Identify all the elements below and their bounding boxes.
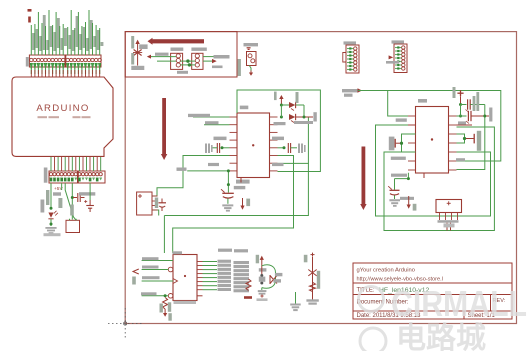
supply plus mark [457,92,463,94]
capacitor C3 [216,143,218,153]
bus arrow top [153,39,205,43]
LED D1 [48,213,53,218]
net label top-left wire [342,89,358,92]
sheet border frame [125,32,516,324]
ground hatch mid-bottom [290,304,301,306]
red bar below column [244,296,252,299]
zener side label right [168,302,171,312]
net label pin8 left [177,168,187,171]
IC3 pin3 clock mark [173,279,178,284]
label near supply arrow [246,199,250,207]
svg-text:http;//www.selyele-vbo-vbso-st: http;//www.selyele-vbo-vbso-store.l [357,277,443,283]
bus arrow left of IC2 [362,147,366,205]
watermark stamp circle lower [360,328,386,351]
IC2 U2 body [416,107,449,174]
resistor R1 body label vertical [58,198,62,208]
plus mark C2 [84,201,87,203]
power mark top-left [28,9,32,12]
wire top run to IC2 [358,91,501,162]
wire label into K1 [155,53,169,56]
wire IC1 pin5 to cap [222,147,230,149]
watermark stamp circle upper [359,283,528,351]
net label pin7 left [208,163,219,166]
IC3 left pin2 wire [142,269,169,271]
crystal lower pins [446,223,448,231]
crystal plus mark [447,202,451,204]
wire IC1 pin1 [193,116,230,118]
title block Sheet cell divider [463,311,465,319]
relay K1 box [171,53,183,69]
wire branch into IC2 pin1 [388,91,408,117]
switch pin wires [69,219,71,221]
title block outline [353,263,512,319]
Q1 body arc [262,265,276,288]
antenna E1 mast [137,41,139,66]
arrow head on top-left wire [358,88,363,93]
wire D3 right red [296,116,313,118]
A2 top label [304,255,308,262]
IC2 center mark [431,138,433,140]
wire U loop left of IC2 [402,134,416,152]
wire to diode D2 [281,104,289,106]
bus arrow left of IC1 [162,98,166,154]
CN1 plus mark [138,195,142,197]
wire IC1 cap branch down [227,171,229,193]
capacitor C6 near CN1 [161,199,163,203]
IC3 bottom pad label [174,301,197,304]
IC1 top label [240,106,249,110]
arduino body subtext right [73,116,81,118]
wire loop pin6 left to connector [152,156,230,197]
ground hatch right of C4 [298,144,300,154]
arduino top header J2 box [66,55,101,67]
wire diagonal to reset box [65,183,76,220]
arduino top pin wires with net labels [31,10,103,55]
Q1 emitter wire [261,288,263,290]
wire loop mid around IC1 [173,156,294,254]
net label right of sub box [238,59,241,76]
svg-text:电路城: 电路城 [396,322,486,351]
IC3 U3 body [173,255,197,301]
Q1 plus mark [260,295,263,297]
Q1 junction top [260,274,263,277]
net label below pin1 [46,190,49,205]
wire out of K2 row1 [203,56,215,58]
capacitor C1 series [73,197,77,199]
zener ZD1 down [163,298,168,310]
wide label below diode net left [274,122,286,125]
relay K2 contacts [195,54,199,58]
antenna star cross [134,50,142,56]
CN1 side label [155,198,158,209]
wire IC1 pin5 right to cap [278,147,285,149]
capacitor C11 polarized [390,189,400,191]
wire label out of K2 [214,55,230,59]
wire IC1 pin2 [204,124,230,126]
IC2 top label [418,99,427,103]
sub-circuit box outline [125,32,237,77]
wire D2 to down leg [296,104,304,106]
header P2 box [394,44,407,73]
relay K2 box [192,53,203,69]
wire long ground run [164,163,308,215]
antenna net label upper [131,36,134,49]
svg-text:CIRMALL: CIRMALL [391,283,527,324]
IC3 pin4 bubble [168,294,173,299]
junction diode net bottom [280,116,283,119]
junction on pin4 wire [164,294,167,297]
wire label below K2 out [212,66,223,69]
ground symbol below LED [45,227,56,229]
relay K1 sublabel [177,71,188,74]
switch S1 box [66,220,80,232]
jumper JP1 wire down [249,66,251,71]
IC1 pin stubs [230,117,278,171]
net label pin3 [142,276,160,279]
wire loop A around IC2 [376,125,491,216]
net label pin4 [141,292,157,295]
wire IC2 bottom-left pin [395,173,409,179]
wire LED to ground [50,219,52,226]
net label pin1 [188,114,210,117]
jumper JP1 cap mark [247,47,251,48]
wire pin8 left [187,170,229,172]
IC1 bottom label [236,180,250,184]
junction diode net top [280,104,283,107]
capacitor C10 [467,111,469,121]
IC3 bottom-right pin stub [197,295,203,297]
wire arrow out of K2 row2 [203,60,212,62]
wire C10 right red [471,115,489,117]
wire long ground run left leg [163,216,165,254]
capacitor C1 net label [79,192,95,195]
arrow glyph left pin2 [133,269,139,274]
pin2 right label [458,121,466,124]
Q1 gate glyph [270,275,277,284]
wire U loop right of IC2 [457,134,465,143]
capacitor C5 polarized [222,192,234,194]
header P2 arrow [389,55,394,59]
net label pin4 right [272,137,284,141]
header P1 side bracket [343,53,346,63]
junction C8 [463,137,466,140]
IC1 U1 body [237,113,270,178]
IC1 center mark [252,144,254,146]
ground below C5 [222,204,233,206]
arduino top header pin circles and stubs [30,58,102,77]
IC3 pin2 bubble [168,267,173,272]
gnd net label wide [400,197,414,200]
arduino module body outline [12,77,113,156]
jumper JP1 label [244,43,259,46]
wire into cap C9 [461,104,467,106]
capacitor C9 [467,99,469,109]
label near arrow [413,204,417,211]
IC2 pin stubs [408,116,457,170]
relay K1 contacts [176,54,180,58]
frame corner mark bottom-left [108,323,142,325]
net label pin2 [205,121,219,124]
C7 gray block [389,137,395,151]
net label pin7 right [272,163,284,166]
net label above diodes right [296,92,299,103]
tall label bar 2 [476,92,479,111]
title block REV cell divider [490,295,492,312]
tall label bar 1 [473,96,476,111]
wire loop diode-net IC1 pin7 [278,117,309,163]
net label pin2 left [396,118,407,121]
IC2 bottom label [391,174,407,177]
IC3 right pins and label columns [197,260,231,291]
wire pin1 to cluster [457,115,467,117]
pin2 right red line [457,124,473,126]
wire into K1 row2 [157,60,176,62]
labels above column [218,249,232,252]
stub end bar right [489,108,492,122]
svg-text:ARDUINO: ARDUINO [36,103,89,114]
power mark 2 top-left [28,17,31,23]
Q1 base label [259,277,266,282]
title block row line 2 [353,294,512,296]
A2 side label [317,271,320,289]
small label below arrow [132,277,136,285]
net label pin6 left [391,157,406,160]
gray bar left of J1 [26,57,29,67]
IC3 left pin3 wire [142,280,173,282]
wire down leg [303,105,305,117]
header P1 contacts [347,47,357,71]
crystal Y1 box [436,200,462,213]
CN1 pin stubs [152,196,158,210]
arduino bottom pins [49,157,102,182]
junction right [483,115,486,118]
A2 zigzag [310,282,316,291]
IC3 right label column 2 [234,261,250,292]
title block row line 3 [353,310,512,312]
red glyph in label column [246,279,251,291]
supply stem [460,96,462,104]
diode D2 [289,102,295,108]
A2 plus mark [311,254,315,256]
net label pin6 right [456,158,465,161]
wire corner down to pin8 row [457,105,485,170]
header P1 label [344,41,357,44]
IC1 bottom stub [240,178,242,183]
wire into K1 [151,56,177,58]
arduino bottom header J4 box [78,171,105,183]
crystal pad bar [438,220,459,223]
wire loop top around IC1 [237,90,320,172]
gray tall bar lower-left [41,200,45,213]
Q1 base pad [257,298,268,301]
Q1 junction bottom [260,282,263,285]
ground below C11 [389,199,400,201]
Q1 right labels [275,273,283,276]
wire C9 to corner [471,104,485,106]
junction below pin1 [50,207,53,210]
antenna label right [139,44,147,49]
junction cluster top [459,103,462,106]
net label on pin7 wire [70,205,74,216]
net label pin4 [214,137,227,141]
arduino body subtext left [38,116,48,118]
Q1 cap pads [258,290,267,292]
net label top right cluster [453,87,456,98]
header P2 contacts [395,46,405,70]
wire loop B around IC2 [384,127,494,231]
branch net label [234,186,246,189]
capacitor C7 [396,142,400,144]
connector CN1 box [137,192,152,215]
relay K1 label [171,48,184,51]
jumper ground arrow [250,71,252,73]
ground hatch left of C3 [205,144,207,154]
Q1 supply arrow up [261,260,263,267]
net label pin2 [142,266,159,269]
zener arrow to ground [164,309,166,313]
wire K1 to K2 row3 [181,64,196,66]
crystal lower label [444,223,455,227]
arduino bottom header J3 box [49,171,78,183]
IC3 center mark [184,275,186,277]
Q1 top label [256,255,259,263]
gray bar left of J3 [44,168,48,183]
IC3 left pin4 wire [142,295,169,297]
wire hatch feed [295,292,297,304]
C8 gray block [477,131,481,151]
zener lower label [168,313,171,321]
capacitor C2 to ground [89,183,91,200]
resistor R1 label [53,192,61,195]
stub end bar [313,112,316,121]
IC3 top label [173,251,183,254]
crystal pins [440,213,458,221]
Q1 collector stub [261,266,263,276]
A2 diode cross [308,270,316,276]
capacitor C8 [466,138,474,140]
antenna net label lower [131,53,134,65]
wire net below J3 pin1 [50,183,52,210]
jumper JP1 box [247,52,257,66]
supply arrow above diodes [280,99,282,106]
antenna base label [131,66,144,70]
junction C7 [400,142,403,145]
capacitor C4 [287,143,289,153]
wide label below diode net right [294,121,313,124]
supply arrow down right of C11 [408,196,410,205]
ground net label [44,233,61,236]
wire down to C11 [394,179,396,190]
IC3 left pin1 wire [142,260,173,262]
svg-text:gYour creation Arduino: gYour creation Arduino [357,268,415,274]
title block row line 1 [353,282,512,284]
wire pin1 to diode D3 [280,105,282,117]
A2 ground [306,299,318,301]
relay K2 label [191,48,206,51]
net label pin1 [142,257,159,260]
wire CN1 pin4 tie [152,210,159,216]
junction cluster bottom [459,115,462,118]
A2 mast [312,257,314,300]
header P2 label [392,40,405,43]
net label above diodes left [274,92,277,101]
wire net pin7 down [71,183,73,220]
wire K1 to K2 row2 [181,60,196,62]
header P1 box [346,45,359,73]
supply arrow down near C5 [242,198,244,206]
zener side label left [160,304,163,313]
IC2 bottom pin 2 [423,173,425,178]
wire vertical joining junctions [460,105,462,117]
Q1 label bar [259,268,267,271]
header P2 side bar [386,61,399,64]
wire net below J3 pin4 [61,183,63,190]
arduino top header J1 box [29,55,65,67]
diode D3 [289,114,295,120]
pin2 left red line [394,124,416,126]
